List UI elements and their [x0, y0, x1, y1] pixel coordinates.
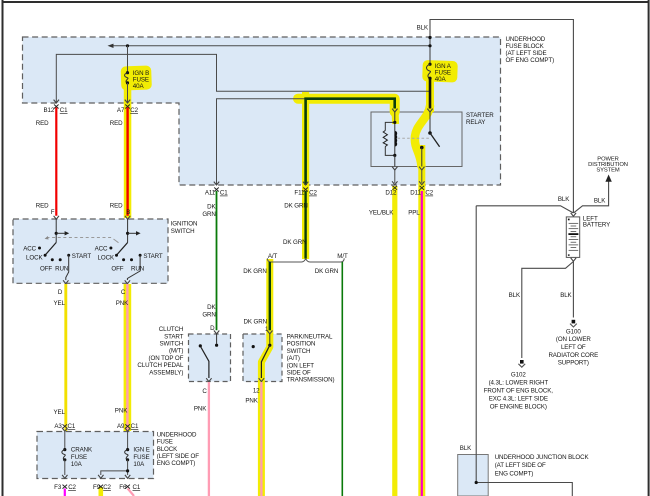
ignition switch 2 START output: [127, 255, 140, 280]
svg-text:C1: C1: [68, 423, 76, 430]
ignition switch 2 common: [127, 219, 129, 243]
node: coil bottom junction: [393, 154, 396, 157]
ignition switch 1 blade: [45, 243, 56, 256]
ignition switch 2 feed arrow: [128, 232, 137, 234]
svg-text:POSITION: POSITION: [287, 341, 316, 348]
svg-text:SUPPORT): SUPPORT): [558, 360, 589, 367]
wire: coil output to D12: [394, 155, 396, 166]
wire: F9 YEL: [99, 485, 104, 489]
svg-text:C2: C2: [68, 484, 76, 491]
clutch switch dummy contact: [199, 344, 202, 347]
svg-text:C2: C2: [103, 484, 111, 491]
svg-text:G102: G102: [511, 371, 526, 378]
svg-text:12: 12: [253, 387, 260, 394]
ignition linkage dashed: [47, 237, 112, 239]
relay switch fixed contact: [420, 146, 424, 150]
ignition switch 1 position dots: [38, 247, 41, 250]
wire: clutch PNK to bottom: [208, 382, 210, 496]
svg-text:40A: 40A: [133, 83, 145, 90]
node: coil top junction: [393, 121, 396, 124]
svg-text:BLK: BLK: [509, 292, 521, 299]
svg-text:IGN E: IGN E: [133, 447, 149, 454]
highlight: fuse block horizontal run to relay coil: [298, 99, 395, 112]
svg-text:M/T: M/T: [337, 253, 348, 260]
IGN E fuse: [127, 432, 129, 450]
node: junction of IGN B feed on bus: [126, 44, 129, 47]
svg-text:A3: A3: [54, 423, 62, 430]
svg-text:C2: C2: [130, 107, 138, 114]
svg-text:START: START: [164, 333, 184, 340]
svg-text:(M/T): (M/T): [169, 348, 183, 355]
svg-text:CLUTCH: CLUTCH: [159, 326, 184, 333]
svg-text:UNDERHOOD: UNDERHOOD: [506, 36, 546, 43]
svg-text:FUSE BLOCK: FUSE BLOCK: [506, 43, 545, 50]
wire: PPL from D11 to bottom: [420, 186, 425, 190]
wire: relay output to D11: [421, 148, 423, 167]
svg-text:C2: C2: [309, 190, 317, 197]
park/neutral position switch box: [243, 334, 282, 382]
svg-text:PNK: PNK: [194, 405, 207, 412]
svg-text:RED: RED: [110, 120, 123, 127]
svg-text:RUN: RUN: [131, 265, 144, 272]
svg-text:START: START: [72, 253, 92, 260]
svg-text:C1: C1: [60, 107, 68, 114]
wire: A11 dk grn inside fuse block: [217, 99, 306, 185]
svg-text:F9: F9: [93, 484, 101, 491]
page frame left border: [2, 0, 4, 496]
highlight: IGN A fuse output wire: [426, 76, 434, 112]
wire: battery negative down to G100: [572, 262, 574, 318]
wire: PNK from ignition C to IGN E fuse: [126, 284, 128, 431]
svg-text:FRONT OF ENG BLOCK,: FRONT OF ENG BLOCK,: [484, 387, 554, 394]
starter relay box: [371, 112, 462, 167]
fuse: IGN A FUSE 40A: [428, 63, 431, 66]
svg-text:10A: 10A: [133, 461, 145, 468]
underhood fuse block (top, stepped dashed box): [23, 37, 501, 185]
PNPS dummy contact: [252, 345, 255, 348]
svg-text:SWITCH: SWITCH: [287, 348, 311, 355]
svg-text:RUN: RUN: [55, 265, 68, 272]
wire: YEL/BLK from D12 to bottom: [393, 186, 398, 190]
relay coil: [394, 122, 396, 155]
svg-text:FUSE: FUSE: [157, 439, 173, 446]
highlight: D11 PPL wire: [418, 145, 425, 496]
ground G102: [520, 360, 524, 364]
wire: A11 DK GRN down to clutch switch: [214, 188, 219, 192]
lower fuse box: A3 entry: [63, 424, 68, 428]
wire: IGN A fuse output (BLK thick) to relay: [429, 78, 432, 108]
svg-text:(LEFT SIDE OF: (LEFT SIDE OF: [157, 453, 200, 460]
relay switch blade: [430, 133, 440, 147]
svg-text:DK: DK: [207, 204, 216, 211]
svg-text:A/T: A/T: [268, 253, 278, 260]
svg-text:G100: G100: [566, 328, 581, 335]
svg-text:GRN: GRN: [202, 211, 215, 218]
svg-text:YEL: YEL: [53, 300, 65, 307]
svg-text:UNDERHOOD JUNCTION BLOCK: UNDERHOOD JUNCTION BLOCK: [495, 454, 590, 461]
svg-text:DK GRN: DK GRN: [315, 268, 338, 275]
relay switch arm input: [429, 112, 431, 133]
underhood fuse block (lower left, dashed box): [37, 432, 154, 479]
svg-text:CRANK: CRANK: [71, 447, 93, 454]
svg-text:C1: C1: [133, 484, 141, 491]
svg-text:OF ENGINE BLOCK): OF ENGINE BLOCK): [490, 403, 547, 410]
wire: branch to G102: [522, 262, 574, 359]
svg-text:LOCK: LOCK: [26, 254, 43, 261]
wire: YEL from ignition D to crank fuse: [64, 284, 67, 431]
ignition switch 1 common: [55, 219, 57, 243]
svg-text:PNK: PNK: [116, 300, 129, 307]
svg-text:(ON LEFT: (ON LEFT: [287, 362, 315, 369]
svg-text:LEFT OF: LEFT OF: [561, 344, 586, 351]
svg-text:RED: RED: [36, 120, 49, 127]
lower fuse box: A9 entry: [125, 424, 130, 428]
svg-text:B12: B12: [43, 107, 54, 114]
svg-text:DK: DK: [207, 304, 216, 311]
svg-text:YEL: YEL: [53, 409, 65, 416]
page frame top border: [2, 1, 650, 3]
svg-text:BATTERY: BATTERY: [583, 222, 610, 229]
node: junction block splice: [475, 481, 478, 484]
battery entry chevron: [571, 213, 576, 216]
node: dot on BLK wire at box edge: [428, 36, 431, 39]
highlight: F11 dk grn wire vertical run: [302, 92, 309, 259]
svg-text:RADIATOR CORE: RADIATOR CORE: [548, 352, 598, 359]
svg-text:BLK: BLK: [460, 445, 472, 452]
clutch switch terminal: [216, 334, 218, 344]
svg-text:START: START: [143, 253, 163, 260]
svg-text:BLK: BLK: [417, 24, 429, 31]
svg-text:A9: A9: [117, 423, 125, 430]
fuse: IGN B FUSE 40A: [126, 71, 129, 74]
svg-text:SWITCH: SWITCH: [171, 228, 195, 235]
svg-text:F11: F11: [294, 190, 305, 197]
wire: M/T branch DK GRN to bottom: [341, 262, 343, 496]
svg-text:BLK: BLK: [560, 292, 572, 299]
svg-text:BLOCK: BLOCK: [157, 446, 178, 453]
svg-text:ENG COMPT): ENG COMPT): [495, 471, 534, 478]
wire: B12 feed horizontal y=54.4: [56, 54, 430, 103]
svg-text:BLK: BLK: [594, 198, 606, 205]
svg-text:PNK: PNK: [115, 407, 128, 414]
svg-text:D: D: [210, 325, 215, 332]
node: IGN E output branch: [126, 469, 129, 472]
ignition switch 2 position dots: [109, 247, 112, 250]
svg-text:STARTER: STARTER: [466, 112, 494, 119]
svg-text:(ON TOP OF: (ON TOP OF: [149, 355, 184, 362]
svg-text:GRN: GRN: [202, 311, 215, 318]
svg-text:FUSE: FUSE: [133, 454, 149, 461]
ignition switch 1 feed arrow: [56, 232, 65, 234]
relay internals: resistor branch: [385, 122, 395, 155]
ignition switch 1 START output: [66, 255, 69, 280]
svg-text:TRANSMISSION): TRANSMISSION): [287, 377, 335, 384]
svg-text:F6: F6: [119, 484, 127, 491]
svg-text:(4.3L: LOWER RIGHT: (4.3L: LOWER RIGHT: [489, 379, 549, 386]
wire: IGN B fuse feed vertical: [127, 46, 129, 73]
split brace A/T M/T: [267, 258, 344, 262]
svg-text:OFF: OFF: [40, 265, 52, 272]
svg-text:ENG COMPT): ENG COMPT): [157, 460, 196, 467]
wire: F6 PNK diagonal: [125, 485, 130, 489]
node: junction of bus with IGN A feed: [428, 44, 431, 47]
highlight: A/T dk grn branch + PNPS output pink wire: [261, 259, 269, 496]
svg-text:IGNITION: IGNITION: [171, 221, 198, 228]
left battery symbol: [566, 217, 579, 258]
svg-text:ACC: ACC: [95, 246, 108, 253]
clutch switch blade: [201, 347, 209, 378]
svg-text:DK GRN: DK GRN: [283, 239, 306, 246]
highlight: IGN A fuse blob: [422, 60, 458, 83]
svg-text:SYSTEM: SYSTEM: [596, 167, 620, 173]
relay switch pivot: [428, 131, 432, 135]
svg-text:RED: RED: [36, 202, 49, 209]
svg-text:D: D: [58, 289, 63, 296]
junction block internals: [476, 455, 572, 496]
svg-text:C1: C1: [220, 190, 228, 197]
wire: bus inside fuse block y=45.8 with left arrow: [110, 45, 430, 47]
clutch start switch box: [189, 334, 231, 382]
highlight: D12 YEL/BLK wire (yellow wire): [392, 186, 397, 496]
page frame right border: [648, 0, 650, 496]
svg-text:PPL: PPL: [408, 210, 420, 217]
highlight: ignition C output pink wire: [124, 284, 132, 431]
resistor zigzag: [383, 131, 387, 147]
svg-text:SIDE OF: SIDE OF: [287, 370, 311, 377]
svg-text:(ON LOWER: (ON LOWER: [556, 336, 591, 343]
arrow to power distribution system: [605, 175, 611, 182]
wire: BLK down to junction block: [475, 206, 477, 455]
ground G100: [572, 320, 576, 324]
svg-text:(A/T): (A/T): [287, 355, 300, 362]
svg-text:EXC 4.3L: LEFT SIDE: EXC 4.3L: LEFT SIDE: [489, 395, 548, 402]
wire: BLK elbow from fuse block to battery top: [430, 20, 573, 214]
wire: B12 RED to ignition switch: [54, 105, 59, 109]
PNPS blade: [261, 345, 269, 378]
svg-text:D12: D12: [385, 190, 397, 197]
svg-text:B: B: [126, 209, 130, 216]
svg-text:D11: D11: [410, 190, 421, 197]
highlight: F9 C2 yellow wire: [99, 487, 104, 496]
wire: F11 dk grn thick to relay coil: [306, 99, 395, 185]
svg-text:C: C: [121, 289, 126, 296]
highlight: relay trace from IGN A to D11 contact: [415, 106, 430, 166]
svg-text:BLK: BLK: [558, 196, 570, 203]
PNPS terminal: [269, 334, 271, 344]
wire: F11 DK GRN down to split: [303, 188, 308, 192]
relay linkage dashed: [398, 137, 430, 139]
svg-text:DK GRN: DK GRN: [244, 318, 267, 325]
wire: A/T branch DK GRN to PNPS: [269, 262, 271, 330]
highlight: relay coil terminal stub: [391, 104, 399, 124]
svg-text:(AT LEFT SIDE OF: (AT LEFT SIDE OF: [495, 462, 546, 469]
svg-text:SWITCH: SWITCH: [159, 341, 183, 348]
crank fuse: [64, 432, 66, 450]
svg-text:RED: RED: [110, 202, 123, 209]
svg-text:ACC: ACC: [23, 246, 36, 253]
highlight: A7 C2 red wire: [124, 88, 132, 218]
svg-text:DK GRN: DK GRN: [243, 268, 266, 275]
svg-text:A11: A11: [205, 190, 216, 197]
ignition switch 2 blade: [117, 243, 128, 256]
wire: PNPS PNK to bottom: [260, 382, 262, 496]
svg-text:10A: 10A: [71, 461, 83, 468]
svg-text:OFF: OFF: [111, 265, 123, 272]
svg-text:LOCK: LOCK: [98, 254, 115, 261]
svg-text:A7: A7: [117, 107, 125, 114]
wire: F3 PPL (magenta): [63, 485, 68, 489]
battery exit chevron: [571, 258, 576, 261]
svg-text:ASSEMBLY): ASSEMBLY): [149, 369, 183, 376]
svg-text:RELAY: RELAY: [466, 119, 485, 126]
svg-text:PNK: PNK: [245, 397, 258, 404]
underhood junction block: [458, 455, 489, 496]
svg-text:FUSE: FUSE: [71, 454, 87, 461]
svg-text:(AT LEFT SIDE: (AT LEFT SIDE: [506, 50, 547, 57]
svg-text:C2: C2: [425, 190, 433, 197]
ignition switch box: [13, 219, 168, 283]
right side: BLK horizontal with battery dip: [476, 182, 608, 213]
relay internals: coil terminal wire: [394, 112, 396, 122]
svg-text:40A: 40A: [435, 76, 447, 83]
svg-text:F: F: [51, 209, 55, 216]
svg-text:PARK/NEUTRAL: PARK/NEUTRAL: [287, 334, 333, 341]
svg-text:YEL/BLK: YEL/BLK: [369, 210, 394, 217]
svg-text:OF ENG COMPT): OF ENG COMPT): [506, 57, 555, 64]
svg-text:CLUTCH PEDAL: CLUTCH PEDAL: [137, 362, 184, 369]
wire: A7 RED to ignition switch: [125, 105, 130, 109]
svg-text:C1: C1: [131, 423, 139, 430]
svg-text:DK GRN: DK GRN: [284, 203, 307, 210]
highlight: IGN B fuse blob: [121, 65, 152, 90]
svg-text:C: C: [202, 388, 207, 395]
svg-text:UNDERHOOD: UNDERHOOD: [157, 431, 197, 438]
svg-text:F3: F3: [54, 484, 62, 491]
